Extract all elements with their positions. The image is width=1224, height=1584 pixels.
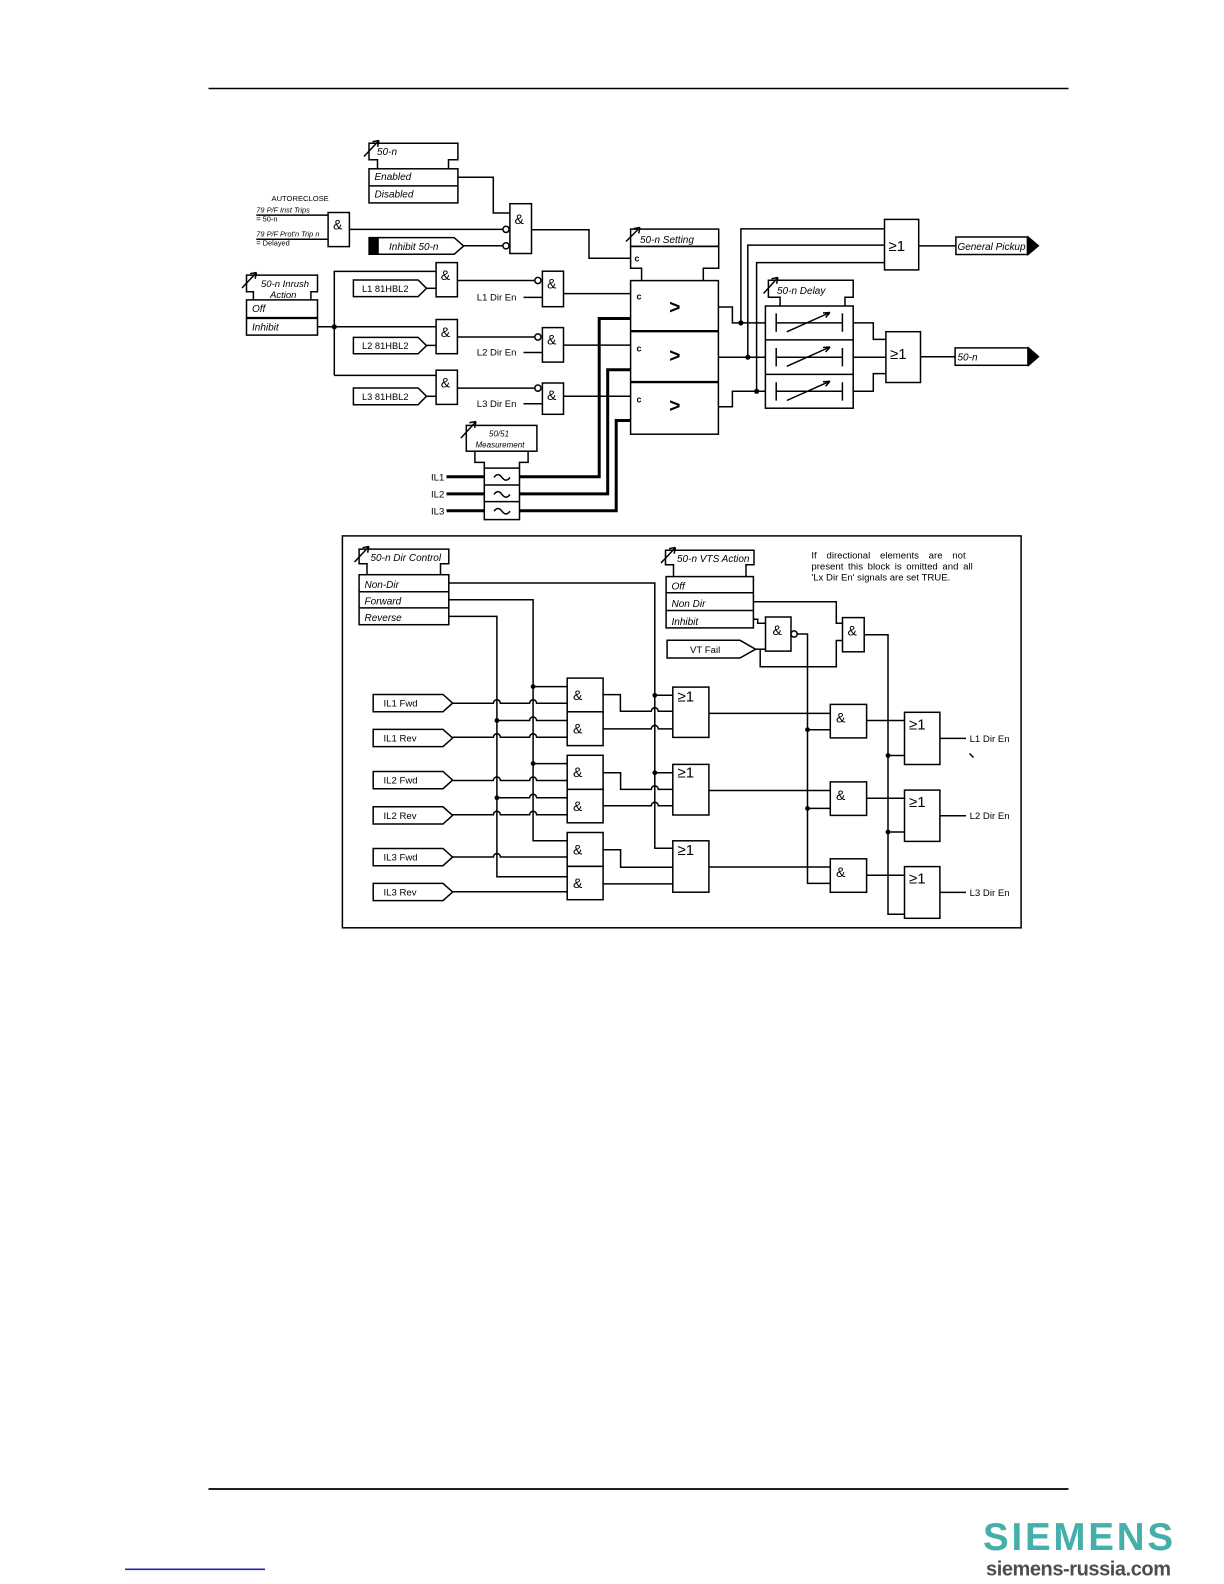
stray tick mark [970, 754, 974, 758]
input tag IL3 Rev [373, 883, 452, 900]
wire L3 AND out to NAND bubble [457, 387, 534, 389]
svg-text:&: & [547, 331, 557, 347]
AND gate L2 inrush [436, 320, 457, 354]
wire AND E2 out to OR F2 [867, 797, 905, 799]
svg-text:79 P/F Inst Trips: 79 P/F Inst Trips [256, 206, 310, 215]
top rule [209, 88, 1069, 90]
wire AND L3r out to OR3 [603, 883, 673, 885]
wire IL3 measurement to comparator row3 [520, 421, 631, 511]
svg-text:L2 81HBL2: L2 81HBL2 [362, 341, 409, 351]
svg-text:'Lx Dir En' signals are set TR: 'Lx Dir En' signals are set TRUE. [811, 572, 950, 583]
svg-text:&: & [441, 267, 451, 283]
wire VT Fail to AND V1 [756, 648, 766, 650]
NAND gate L1 (inverted inhibit input) [535, 271, 564, 307]
timer symbol row1 [776, 313, 842, 332]
measurement pedestal [475, 451, 528, 468]
wire AND L2f out to OR2 (hop) [603, 773, 673, 790]
svg-text:siemens-russia.com: siemens-russia.com [986, 1559, 1171, 1581]
svg-text:Measurement: Measurement [476, 440, 526, 449]
wire L2 AND out to NAND bubble [457, 336, 534, 338]
svg-text:50/51: 50/51 [489, 430, 509, 439]
wire V1 out bus down left enable rail [797, 634, 830, 883]
node V2 rail tap L2 [886, 830, 891, 835]
50-n Enabled/Disabled list box [369, 169, 458, 203]
wire Non-Dir bus [449, 583, 673, 848]
timer symbol row3 [776, 381, 842, 400]
wire inst trips to AND U1 [256, 214, 328, 216]
svg-text:≥1: ≥1 [678, 689, 695, 706]
OR gate F3 [905, 867, 940, 919]
input tag L3 81HBL2 [353, 388, 426, 405]
AND gate E2 [830, 782, 866, 816]
AND gate U1 autoreclose [328, 213, 349, 247]
AND gate L2 forward [567, 755, 603, 789]
svg-text:&: & [333, 217, 343, 233]
input tag IL3 Fwd [373, 849, 452, 866]
wire reverse tap to AND L1r (hop) [497, 717, 567, 721]
wire L1 AND out to NAND bubble [457, 280, 534, 282]
svg-text:50-n Delay: 50-n Delay [777, 286, 826, 297]
wire OR1 out to AND E1 [709, 712, 830, 714]
wire L2 81HBL2 to AND [427, 344, 437, 346]
wire rail tap to AND E1 [808, 729, 831, 731]
wire non-dir tap to OR2 [655, 772, 673, 774]
svg-text:50-n Dir Control: 50-n Dir Control [371, 553, 442, 564]
svg-text:IL2 Rev: IL2 Rev [384, 811, 417, 822]
svg-text:≥1: ≥1 [678, 765, 695, 782]
wire AND L2r out to OR2 (hop) [603, 802, 673, 805]
node non-dir tap L2 [652, 770, 657, 775]
svg-text:Disabled: Disabled [375, 190, 414, 201]
wire V2 out bus down right rail [864, 635, 904, 915]
node junction row3 pickup [754, 389, 759, 394]
wire non-dir tap to OR1 [655, 694, 673, 696]
directional logic outer frame [342, 536, 1021, 928]
wire row1 junction up to OR pickup in1 [741, 229, 885, 323]
wire OR F3 out [940, 891, 966, 893]
wire VTS Inhibit to AND V1 [753, 619, 765, 623]
svg-text:c: c [637, 292, 642, 302]
node reverse tap L2 [495, 795, 500, 800]
input tag IL2 Rev [373, 807, 452, 824]
AND gate E3 [830, 859, 866, 893]
wire IL1 measurement to comparator row1 [520, 319, 631, 477]
AND gate L2 reverse [567, 789, 603, 822]
AND gate V1 inhibit (inverted output) [766, 617, 798, 651]
wire OR F1 out [940, 737, 966, 739]
Dir Control list box Non-Dir/Forward/Reverse [359, 575, 449, 625]
NAND gate L2 [535, 328, 564, 363]
svg-text:&: & [836, 864, 846, 880]
input tag Inhibit 50-n [369, 238, 464, 255]
input tag IL2 Fwd [373, 772, 452, 789]
svg-text:AUTORECLOSE: AUTORECLOSE [272, 194, 329, 203]
svg-text:Inhibit: Inhibit [252, 323, 280, 334]
wire Inhibit action to junction [318, 326, 335, 328]
wire IL3 to measurement [447, 509, 485, 512]
node V2 rail tap L1 [886, 753, 891, 758]
node non-dir tap L1 [652, 693, 657, 698]
AND gate L3 forward [567, 833, 603, 867]
OR gate F1 [905, 712, 940, 764]
svg-text:IL2 Fwd: IL2 Fwd [384, 776, 418, 787]
svg-text:&: & [836, 787, 846, 803]
input tag IL1 Rev [373, 729, 452, 746]
wire comparator1 out to delay row1 [718, 307, 765, 323]
wire OR F2 out [940, 815, 966, 817]
svg-text:&: & [573, 687, 583, 703]
svg-text:&: & [573, 875, 583, 891]
AND gate L1 reverse [567, 712, 603, 746]
node junction row1 pickup [738, 320, 743, 325]
wire L2 Dir En to NAND [524, 352, 543, 354]
OR gate 2 [673, 764, 709, 815]
OR gate 50-n trip [886, 332, 921, 383]
svg-text:&: & [573, 721, 583, 737]
OR gate general pickup [885, 219, 919, 270]
node junction row2 pickup [745, 355, 750, 360]
wire comparator3 out to delay row3 [718, 391, 765, 407]
svg-text:&: & [836, 709, 846, 725]
AND gate U2 with inverted inputs [503, 204, 532, 254]
svg-text:79 P/F Prot'n Trip n: 79 P/F Prot'n Trip n [256, 229, 319, 238]
wire AND E1 out to OR F1 [867, 720, 905, 722]
wire OR out to 50-n tag [921, 356, 956, 358]
wire OR3 out to AND E3 [709, 866, 830, 868]
timer symbol row2 [776, 347, 842, 366]
OR gate F2 [905, 790, 940, 841]
wire L1 NAND out to comparator c1 [564, 293, 631, 295]
wire OR2 out to AND E2 [709, 790, 830, 792]
input tag L1 81HBL2 [353, 280, 426, 297]
svg-text:c: c [637, 395, 642, 405]
OR gate 1 [673, 687, 709, 737]
AND gate L3 inrush [436, 370, 457, 404]
AND gate E1 [830, 704, 866, 738]
wire delay row3 out to OR 50-n in3 [853, 374, 886, 392]
svg-text:Off: Off [672, 582, 687, 593]
node enable rail tap L1 [805, 727, 810, 732]
wire IL2 to measurement [447, 492, 485, 495]
input tag IL1 Fwd [373, 695, 452, 712]
svg-text:Enabled: Enabled [375, 172, 412, 183]
wire L2 NAND out to comparator c2 [564, 344, 631, 346]
footer link underline [125, 1569, 265, 1571]
delay timer block rows 1-3 [765, 306, 853, 408]
svg-text:c: c [635, 254, 640, 264]
svg-text:>: > [669, 298, 680, 319]
AND gate V2 non dir [843, 618, 865, 652]
OR gate 3 [673, 841, 709, 892]
setting symbol 50-n Inrush Action [242, 273, 318, 301]
wire Reverse bus [449, 616, 567, 876]
wire delay row2 out to OR 50-n in2 [853, 356, 886, 358]
svg-text:L3 Dir En: L3 Dir En [477, 399, 517, 410]
svg-text:≥1: ≥1 [890, 346, 907, 363]
svg-text:General Pickup: General Pickup [958, 242, 1026, 253]
svg-text:≥1: ≥1 [909, 794, 926, 811]
setting symbol 50/51 Measurement [461, 422, 537, 452]
wire forward tap to AND L2f [533, 763, 567, 765]
svg-text:present this block is omitted: present this block is omitted and all [811, 561, 972, 572]
svg-text:50-n: 50-n [377, 147, 397, 158]
wire AND L1r out to OR1 (hop) [603, 725, 673, 729]
svg-text:L1 Dir En: L1 Dir En [970, 734, 1010, 745]
wire VT Fail branch to AND V2 [760, 641, 842, 667]
svg-text:VT Fail: VT Fail [690, 645, 720, 656]
wire V2 tap to OR F2 [888, 831, 905, 833]
svg-text:Forward: Forward [365, 596, 402, 607]
svg-text:L2 Dir En: L2 Dir En [970, 811, 1010, 822]
svg-text:50-n: 50-n [958, 352, 978, 363]
wire IL1 Fwd to AND (hops) [453, 700, 568, 704]
node junction inhibit bus [332, 324, 337, 329]
svg-text:Inhibit: Inhibit [672, 617, 700, 628]
wire Inhibit 50-n to U2 inverted input [464, 245, 503, 247]
svg-text:= 50-n: = 50-n [256, 215, 277, 224]
svg-text:L3 81HBL2: L3 81HBL2 [362, 392, 409, 402]
svg-text:Inhibit 50-n: Inhibit 50-n [389, 242, 439, 253]
wire IL3 Fwd to AND (hop) [453, 854, 568, 858]
svg-text:50-n Inrush: 50-n Inrush [261, 279, 309, 290]
Inrush Off/Inhibit list box [247, 300, 318, 335]
output tag General Pickup [956, 236, 1040, 257]
wire Enabled to AND U2 [458, 177, 510, 213]
wire U2 out to 50-n Setting c input [532, 230, 631, 258]
wire inhibit bus vertical with branches to AND gates [334, 271, 436, 375]
wire rail tap to AND E2 [808, 807, 831, 809]
svg-text:c: c [637, 344, 642, 354]
svg-text:Reverse: Reverse [365, 613, 403, 624]
svg-text:If directional elements are no: If directional elements are not [811, 550, 966, 561]
wire L3 NAND out to comparator c3 [564, 395, 631, 397]
wire L1 81HBL2 to AND [427, 287, 437, 289]
output tag 50-n [955, 346, 1040, 367]
wire IL2 measurement to comparator row2 [520, 370, 631, 494]
wire L3 81HBL2 to AND [427, 395, 437, 397]
svg-text:>: > [669, 396, 680, 417]
note text [811, 550, 972, 583]
wire AND E3 out to OR F3 [867, 874, 905, 876]
wire AND L3f out to OR3 [603, 850, 673, 868]
svg-text:L1 Dir En: L1 Dir En [477, 292, 517, 303]
svg-text:Off: Off [252, 304, 267, 315]
wire row3 junction up to OR pickup in3 [757, 263, 885, 392]
wire IL3 Rev to AND [453, 891, 568, 893]
svg-text:&: & [515, 211, 525, 227]
svg-text:≥1: ≥1 [909, 717, 926, 734]
svg-text:≥1: ≥1 [678, 842, 695, 859]
footer rule [209, 1488, 1069, 1490]
AND gate L1 forward [567, 678, 603, 712]
input tag VT Fail [667, 640, 756, 658]
svg-text:>: > [669, 346, 680, 367]
svg-text:&: & [547, 387, 557, 403]
svg-text:&: & [441, 375, 451, 391]
wire reverse tap to AND L2r (hop) [497, 794, 567, 797]
wire AND L1f out to OR1 (hop) [603, 695, 673, 712]
wire delay row1 out to OR 50-n in1 [853, 323, 886, 340]
NAND gate L3 [535, 383, 564, 414]
svg-text:Non Dir: Non Dir [672, 599, 707, 610]
svg-text:SIEMENS: SIEMENS [983, 1516, 1173, 1559]
svg-text:L2 Dir En: L2 Dir En [477, 348, 517, 359]
wire V2 tap to OR F1 [888, 755, 905, 757]
svg-text:&: & [573, 841, 583, 857]
svg-text:&: & [848, 623, 858, 639]
setting symbol 50-n Dir Control [355, 547, 449, 575]
AND gate L3 reverse [567, 866, 603, 899]
svg-text:&: & [441, 324, 451, 340]
comparator block rows 1-3 [631, 281, 719, 435]
AND gate L1 inrush [436, 263, 457, 297]
svg-text:≥1: ≥1 [909, 871, 926, 888]
wire forward tap to AND L1f [533, 686, 567, 688]
wire IL2 Rev to AND (hops) [453, 811, 568, 815]
svg-text:IL1 Fwd: IL1 Fwd [384, 699, 418, 710]
node 79 P/F Prot'n Trip n = Delayed [256, 229, 319, 247]
node reverse tap L1 [495, 718, 500, 723]
measurement element stack IL1-IL3 [484, 468, 519, 519]
setting symbol 50-n Setting [626, 228, 719, 247]
wire row2 junction up to OR pickup in2 [748, 245, 885, 357]
wire L1 Dir En to NAND [524, 296, 543, 298]
svg-text:&: & [573, 764, 583, 780]
svg-text:L1 81HBL2: L1 81HBL2 [362, 284, 409, 294]
svg-text:IL2: IL2 [431, 489, 444, 500]
VTS Action list box Off/Non Dir/Inhibit [666, 577, 753, 628]
svg-text:&: & [773, 622, 783, 638]
wire U1 out to U2 inverted input [349, 228, 502, 230]
node 79 P/F Inst Trips = 50-n [256, 206, 310, 224]
wire Forward bus [449, 600, 567, 841]
wire OR out to General Pickup tag [919, 245, 956, 247]
wire IL1 Rev to AND (hops) [453, 734, 568, 737]
node forward tap L1 [531, 684, 536, 689]
svg-text:Non-Dir: Non-Dir [365, 580, 400, 591]
wire IL1 to measurement [447, 475, 485, 478]
50-n Setting c row with tabs down [631, 246, 719, 280]
input tag L2 81HBL2 [353, 337, 426, 353]
node enable rail tap L2 [805, 806, 810, 811]
wire VTS Non Dir to AND V2 [753, 602, 842, 623]
svg-text:= Delayed: = Delayed [256, 239, 290, 248]
svg-text:IL3 Rev: IL3 Rev [384, 887, 417, 898]
svg-text:IL1 Rev: IL1 Rev [384, 733, 417, 744]
wire comparator2 out to delay row2 [718, 356, 765, 358]
svg-text:50-n VTS Action: 50-n VTS Action [677, 554, 750, 565]
svg-text:&: & [547, 276, 557, 292]
setting symbol 50-n Delay [764, 278, 854, 307]
wire L3 Dir En to NAND [524, 403, 543, 405]
setting symbol 50-n (header box with tab) [364, 141, 458, 169]
svg-text:IL3 Fwd: IL3 Fwd [384, 853, 418, 864]
wire IL2 Fwd to AND (hops) [453, 777, 568, 780]
svg-text:IL3: IL3 [431, 506, 444, 517]
svg-text:&: & [573, 798, 583, 814]
svg-text:L3 Dir En: L3 Dir En [970, 888, 1010, 899]
svg-text:Action: Action [269, 290, 296, 301]
setting symbol 50-n VTS Action [661, 548, 754, 577]
wire prot'n trip to AND U1 [256, 238, 328, 240]
svg-text:50-n Setting: 50-n Setting [640, 235, 694, 246]
svg-text:≥1: ≥1 [889, 238, 906, 255]
node forward tap L2 [531, 761, 536, 766]
svg-text:IL1: IL1 [431, 472, 444, 483]
